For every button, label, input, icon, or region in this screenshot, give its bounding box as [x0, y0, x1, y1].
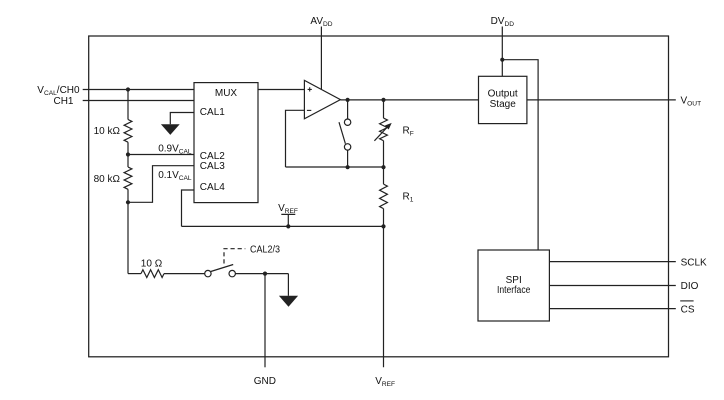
svg-text:SCLK: SCLK	[681, 258, 707, 269]
wire feedback rail	[286, 166, 384, 168]
svg-text:CH1: CH1	[53, 96, 73, 107]
svg-text:CAL2/3: CAL2/3	[250, 245, 280, 256]
wire feedback to op-amp minus	[286, 110, 305, 167]
switch S1 lever	[339, 122, 345, 144]
resistor RF arrow	[374, 127, 387, 141]
svg-text:Output: Output	[488, 88, 518, 99]
node GND junction	[263, 272, 267, 276]
ground symbol at CAL1	[161, 124, 180, 135]
svg-text:R1: R1	[403, 192, 414, 204]
node RF top junction	[381, 98, 385, 102]
wire 10k to node	[127, 142, 129, 154]
wire DVDD to SPI	[502, 60, 538, 250]
switch S2 lever	[211, 265, 233, 272]
node DVDD junction	[500, 58, 504, 62]
wire MUX output to op-amp plus input	[258, 89, 304, 91]
svg-text:CAL4: CAL4	[200, 182, 225, 193]
resistor R 10ohm wire left	[128, 273, 141, 275]
wire ground stub	[287, 274, 289, 296]
switch S1 bottom contact	[344, 144, 350, 150]
resistor R1	[380, 184, 388, 209]
svg-text:MUX: MUX	[215, 88, 238, 99]
svg-text:0.9VCAL: 0.9VCAL	[158, 143, 192, 155]
wire SCLK	[549, 261, 675, 263]
wire VREF pin to bottom	[383, 226, 385, 367]
op-amp minus pin mark	[307, 109, 311, 111]
svg-text:10 Ω: 10 Ω	[141, 258, 163, 269]
svg-text:DIO: DIO	[681, 281, 699, 292]
node R1 VREF junction	[381, 224, 385, 228]
svg-text:VREF: VREF	[278, 203, 298, 215]
wire GND pin	[264, 274, 266, 368]
resistor R 80k	[124, 167, 132, 189]
resistor R 10ohm	[141, 270, 164, 278]
svg-text:GND: GND	[254, 376, 276, 387]
wire MUX CAL1 to ground	[170, 113, 194, 125]
wire CAL2/3 control dashed	[224, 249, 245, 264]
wire output to switch S1	[347, 100, 349, 119]
wire VREF rail	[182, 225, 384, 227]
op-amp plus pin mark	[308, 87, 312, 91]
wire switch S1 to feedback rail	[347, 150, 349, 167]
wire RF bottom stub	[383, 141, 385, 168]
label CS overline	[680, 300, 693, 302]
svg-text:Interface: Interface	[497, 285, 531, 296]
svg-text:Stage: Stage	[490, 99, 517, 110]
resistor RF variable	[380, 118, 388, 141]
svg-text:10 kΩ: 10 kΩ	[94, 126, 121, 137]
wire 80k to node	[127, 189, 129, 202]
node CH0 junction	[126, 87, 130, 91]
wire 0.1VCAL to MUX CAL3	[128, 166, 194, 203]
wire VOUT	[527, 99, 676, 101]
node op-amp output junction	[346, 98, 350, 102]
wire RF top stub	[383, 100, 385, 118]
switch S2 right contact	[229, 270, 235, 276]
switch S2 left contact	[205, 270, 211, 276]
wire switch S2 to ground	[235, 273, 288, 275]
svg-text:VOUT: VOUT	[681, 95, 702, 107]
ground symbol at switch	[279, 296, 298, 307]
svg-text:CAL3: CAL3	[200, 161, 225, 172]
chip boundary box	[89, 36, 669, 357]
svg-text:AVDD: AVDD	[310, 16, 332, 28]
svg-text:CS: CS	[681, 304, 695, 315]
MUX block U1	[194, 83, 258, 203]
SPI Interface block U4	[478, 250, 549, 321]
node feedback junction	[346, 165, 350, 169]
wire CH0 node to 10k resistor	[127, 90, 129, 120]
wire node to 80k resistor	[127, 155, 129, 168]
resistor R 10k	[124, 120, 132, 143]
Output Stage block U3	[479, 76, 527, 123]
svg-text:CAL1: CAL1	[200, 107, 225, 118]
wire 0.9VCAL to MUX CAL2	[128, 154, 194, 156]
svg-text:RF: RF	[403, 126, 414, 138]
wire VCAL/CH0 input	[83, 89, 194, 91]
wire MUX CAL4 to VREF rail	[182, 190, 195, 226]
node 0.1VCAL junction	[126, 200, 130, 204]
svg-text:VREF: VREF	[375, 376, 395, 388]
node RF bottom junction	[381, 165, 385, 169]
svg-text:0.1VCAL: 0.1VCAL	[158, 170, 192, 182]
wire VREF stub	[281, 214, 295, 226]
wire 10ohm to switch S2	[164, 273, 205, 275]
wire DIO	[549, 285, 675, 287]
wire node down to 10 ohm resistor	[127, 202, 129, 273]
wire op-amp output	[340, 99, 478, 101]
svg-text:DVDD: DVDD	[491, 16, 515, 28]
switch S1 top contact	[344, 119, 350, 125]
svg-text:80 kΩ: 80 kΩ	[94, 174, 121, 185]
wire R1 bottom stub	[383, 209, 385, 227]
wire DVDD supply	[501, 27, 503, 77]
wire CS	[549, 308, 675, 310]
wire AVDD supply	[320, 27, 322, 90]
node 0.9VCAL junction	[126, 152, 130, 156]
wire R1 top stub	[383, 167, 385, 184]
node VREF tap	[286, 224, 290, 228]
wire CH1 input	[83, 100, 194, 102]
op-amp U2	[304, 80, 340, 118]
